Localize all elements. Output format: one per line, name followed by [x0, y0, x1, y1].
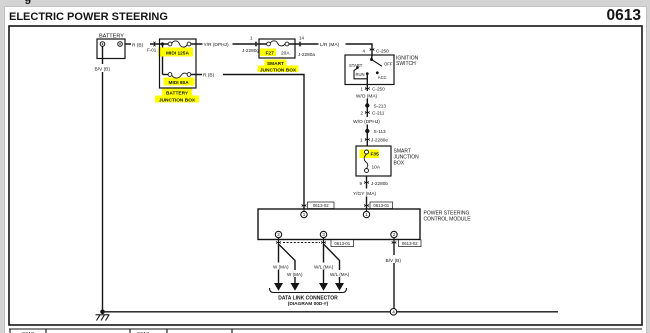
svg-text:MIDI 80A: MIDI 80A — [169, 80, 190, 86]
svg-text:1: 1 — [365, 212, 368, 217]
svg-text:W/O (MA): W/O (MA) — [356, 94, 378, 100]
svg-text:0613: 0613 — [607, 7, 642, 24]
svg-text:J-2280g: J-2280g — [242, 48, 259, 53]
svg-text:JUNCTION BOX: JUNCTION BOX — [260, 67, 297, 73]
svg-text:J-2280b: J-2280b — [371, 181, 388, 186]
svg-text:J-2280a: J-2280a — [298, 52, 315, 57]
svg-text:MIDI 125A: MIDI 125A — [166, 51, 189, 57]
svg-text:L/R (MA): L/R (MA) — [320, 42, 340, 48]
svg-text:0613-02: 0613-02 — [402, 241, 418, 246]
svg-text:W/L (MA): W/L (MA) — [330, 272, 350, 277]
svg-text:B/V (B): B/V (B) — [95, 67, 111, 73]
svg-text:W (MA): W (MA) — [273, 264, 289, 269]
svg-text:0613-01: 0613-01 — [373, 203, 389, 208]
svg-text:F27: F27 — [266, 51, 275, 57]
svg-text:g: g — [25, 0, 32, 5]
svg-text:2: 2 — [393, 232, 396, 237]
svg-text:DATA LINK CONNECTOR: DATA LINK CONNECTOR — [278, 296, 338, 302]
svg-text:ELECTRIC POWER STEERING: ELECTRIC POWER STEERING — [9, 11, 168, 23]
svg-text:BATTERY: BATTERY — [166, 91, 189, 97]
svg-text:3: 3 — [322, 232, 325, 237]
svg-text:Y/R (DPHJ): Y/R (DPHJ) — [204, 42, 229, 48]
svg-text:BOX: BOX — [394, 161, 405, 167]
svg-text:W (MA): W (MA) — [287, 272, 303, 277]
svg-text:C-250: C-250 — [372, 87, 385, 92]
svg-text:S-113: S-113 — [374, 129, 387, 134]
svg-text:R (B): R (B) — [132, 43, 144, 49]
svg-text:S-213: S-213 — [374, 104, 387, 109]
svg-text:Y/GY (MA): Y/GY (MA) — [353, 191, 377, 197]
svg-text:BATTERY: BATTERY — [99, 34, 124, 40]
svg-text:ACC: ACC — [378, 75, 387, 80]
svg-text:C-250: C-250 — [376, 49, 389, 54]
svg-text:R (B): R (B) — [203, 73, 215, 79]
svg-text:20A: 20A — [281, 51, 290, 57]
svg-text:W/O (DPHJ): W/O (DPHJ) — [353, 119, 380, 125]
svg-text:OFF: OFF — [384, 62, 393, 67]
svg-text:SMART: SMART — [267, 61, 284, 67]
svg-text:B/V (B): B/V (B) — [386, 258, 402, 264]
svg-text:2: 2 — [277, 232, 280, 237]
svg-text:C-211: C-211 — [372, 111, 385, 116]
svg-text:1: 1 — [303, 212, 306, 217]
svg-text:RUN: RUN — [356, 72, 365, 77]
svg-text:F-01: F-01 — [147, 47, 157, 52]
svg-text:J-2280e: J-2280e — [371, 138, 388, 143]
svg-text:START: START — [349, 63, 363, 68]
svg-text:CONTROL MODULE: CONTROL MODULE — [424, 217, 472, 223]
svg-text:14: 14 — [299, 36, 305, 41]
svg-text:F35: F35 — [371, 152, 380, 158]
svg-text:0613-01: 0613-01 — [334, 241, 350, 246]
svg-text:0613-02: 0613-02 — [313, 203, 329, 208]
svg-text:10A: 10A — [372, 165, 381, 171]
svg-text:SWITCH: SWITCH — [396, 61, 416, 67]
svg-text:(DIAGRAM 00D-#): (DIAGRAM 00D-#) — [288, 301, 329, 307]
svg-text:4: 4 — [392, 310, 395, 315]
svg-text:W/L (MA): W/L (MA) — [314, 264, 334, 269]
svg-text:JUNCTION BOX: JUNCTION BOX — [159, 98, 196, 104]
